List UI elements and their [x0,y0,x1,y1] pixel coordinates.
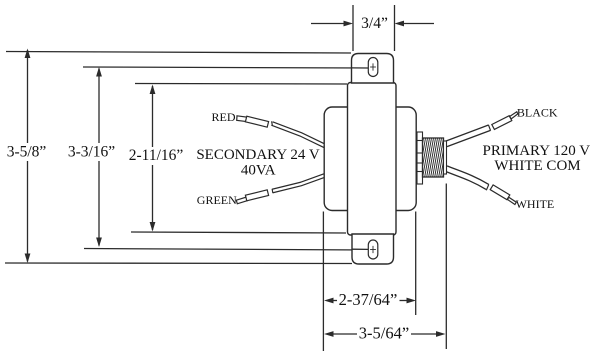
extension line bobbin left [322,212,324,352]
transformer bobbin [324,107,416,211]
dimension 3-3/16" extension line top [83,67,368,68]
wire BLACK primary lead [446,125,491,144]
wire GREEN secondary lead [272,176,324,194]
mounting tab top [352,54,394,84]
svg-text:40VA: 40VA [241,163,276,179]
dimension 3-5/8" dimension line [27,50,29,143]
svg-text:2-11/16”: 2-11/16” [129,147,184,164]
dimension 3/4" arrow right [403,23,434,25]
svg-text:SECONDARY 24 V: SECONDARY 24 V [196,147,320,163]
svg-text:BLACK: BLACK [517,106,558,120]
svg-text:RED: RED [212,110,236,124]
svg-text:WHITE: WHITE [516,197,555,211]
dimension 2-11/16" dimension line [152,86,154,147]
svg-text:2-37/64”: 2-37/64” [339,290,398,309]
dimension 2-37/64" dimension line [331,300,337,302]
dimension 3-5/8" extension line bottom [5,262,352,265]
mounting slot top [368,58,378,77]
dimension 3-3/16" dimension line [98,69,100,144]
dimension 3/4" arrow left [311,23,345,25]
wire RED secondary lead [272,121,325,146]
extension line coil right [445,184,447,350]
terminal crimp BLACK [492,112,518,130]
mounting slot bottom [368,240,378,259]
dimension 3-3/16" extension overlay to top slot [352,67,369,69]
dimension 3-5/8" extension line top [6,52,351,54]
svg-text:WHITE COM: WHITE COM [494,158,580,174]
transformer core (lamination stack) [348,83,397,236]
dimension 3-3/16" extension overlay to bottom slot [352,248,368,250]
dimension 2-11/16" extension line bottom [131,232,346,233]
dimension 3-3/16" extension line bottom [84,249,368,251]
dimension 3/4" extension line right [394,5,396,51]
svg-text:3-5/64”: 3-5/64” [359,324,409,343]
slot center mark bottom [370,246,376,253]
dimension 3-5/64" dimension line [331,333,357,335]
terminal crimp GREEN [236,190,268,204]
coil right cap [444,141,447,174]
svg-text:3-5/8”: 3-5/8” [7,144,47,161]
svg-text:3-3/16”: 3-3/16” [68,144,115,161]
svg-text:GREEN: GREEN [197,193,237,207]
dimension 2-11/16" extension line top [135,83,347,86]
extension line bobbin right [415,212,417,316]
slot center mark top [370,63,376,70]
terminal crimp WHITE [490,185,516,205]
terminal crimp RED [237,116,269,127]
mounting tab bottom [352,234,394,264]
wire WHITE primary lead [446,169,489,191]
coil flange strip [417,132,423,184]
svg-text:3/4”: 3/4” [361,15,388,32]
svg-text:PRIMARY 120 V: PRIMARY 120 V [483,143,591,159]
dimension 3/4" extension line left [352,5,354,51]
